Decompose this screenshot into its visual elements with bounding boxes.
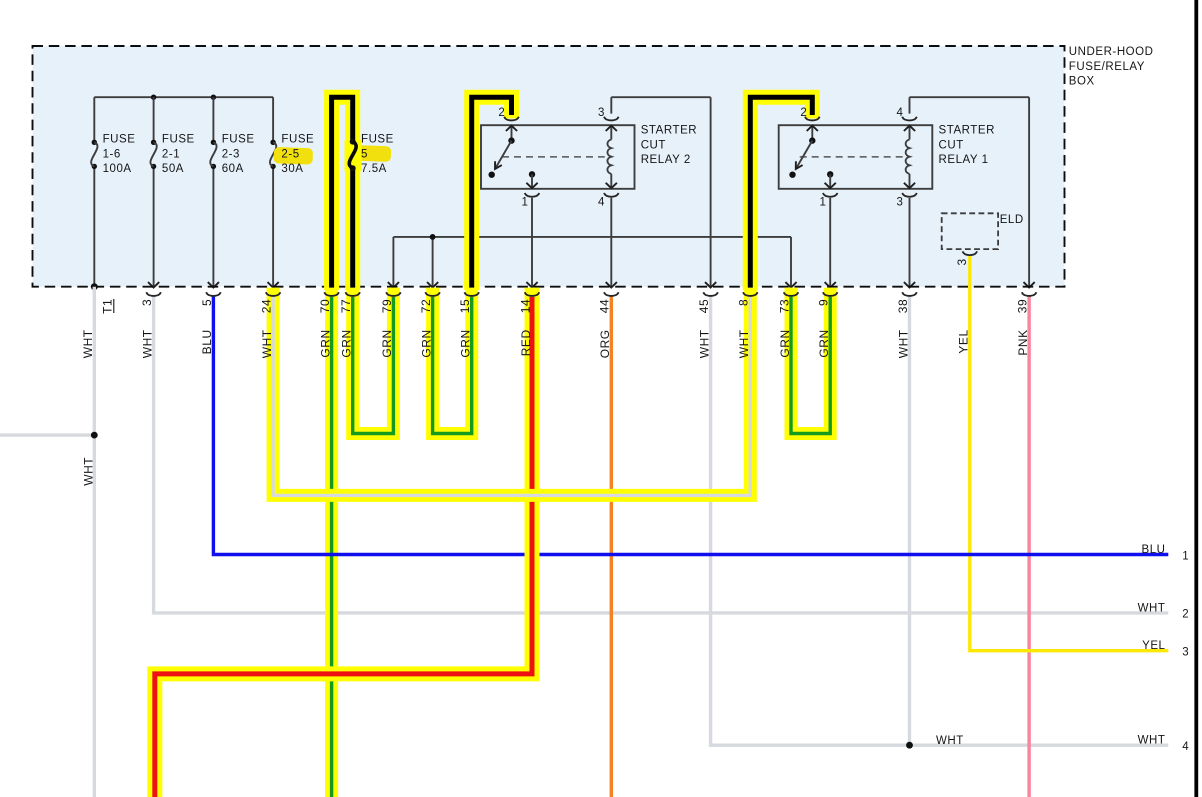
svg-text:30A: 30A	[281, 163, 303, 175]
svg-text:ORG: ORG	[598, 329, 612, 358]
svg-text:BLU: BLU	[200, 329, 214, 354]
svg-text:T1: T1	[101, 299, 115, 314]
svg-text:GRN: GRN	[340, 329, 354, 357]
svg-text:GRN: GRN	[459, 329, 473, 357]
svg-text:GRN: GRN	[778, 329, 792, 357]
svg-text:3: 3	[1182, 647, 1189, 659]
svg-text:2: 2	[498, 107, 505, 119]
svg-text:3: 3	[955, 258, 969, 265]
svg-text:FUSE: FUSE	[222, 134, 255, 146]
svg-text:3: 3	[598, 107, 605, 119]
svg-text:15: 15	[458, 299, 472, 313]
svg-text:79: 79	[380, 299, 394, 313]
svg-text:2: 2	[1182, 609, 1189, 621]
svg-text:WHT: WHT	[936, 735, 964, 747]
svg-text:7.5A: 7.5A	[361, 163, 387, 175]
svg-text:45: 45	[697, 299, 711, 313]
svg-text:60A: 60A	[222, 163, 244, 175]
svg-text:BOX: BOX	[1069, 76, 1095, 88]
svg-text:3: 3	[140, 299, 154, 306]
svg-text:24: 24	[260, 299, 274, 313]
svg-text:WHT: WHT	[81, 457, 95, 486]
svg-text:WHT: WHT	[140, 329, 154, 358]
svg-text:73: 73	[777, 299, 791, 313]
svg-text:YEL: YEL	[957, 329, 971, 353]
svg-text:4: 4	[598, 196, 605, 208]
svg-text:38: 38	[896, 299, 910, 313]
svg-text:70: 70	[318, 299, 332, 313]
svg-text:RELAY 1: RELAY 1	[939, 154, 989, 166]
svg-text:FUSE: FUSE	[162, 134, 195, 146]
svg-text:CUT: CUT	[939, 139, 964, 151]
svg-text:1-6: 1-6	[103, 148, 121, 160]
svg-text:1: 1	[522, 196, 529, 208]
svg-text:STARTER: STARTER	[939, 125, 995, 137]
svg-text:77: 77	[339, 299, 353, 313]
svg-text:BLU: BLU	[1141, 544, 1165, 556]
svg-text:ELD: ELD	[1000, 214, 1024, 226]
svg-text:2-5: 2-5	[281, 148, 299, 160]
svg-text:PNK: PNK	[1016, 329, 1030, 355]
svg-text:50A: 50A	[162, 163, 184, 175]
svg-text:WHT: WHT	[737, 329, 751, 358]
svg-text:WHT: WHT	[896, 329, 910, 358]
svg-text:CUT: CUT	[641, 139, 666, 151]
svg-text:UNDER-HOOD: UNDER-HOOD	[1069, 46, 1154, 58]
svg-text:WHT: WHT	[1138, 735, 1166, 747]
svg-text:WHT: WHT	[81, 329, 95, 358]
svg-text:RELAY 2: RELAY 2	[641, 154, 691, 166]
svg-text:1: 1	[1182, 550, 1189, 562]
svg-text:39: 39	[1016, 299, 1030, 313]
svg-text:3: 3	[897, 196, 904, 208]
svg-text:FUSE/RELAY: FUSE/RELAY	[1069, 61, 1145, 73]
svg-text:FUSE: FUSE	[103, 134, 136, 146]
svg-text:5: 5	[361, 148, 368, 160]
svg-text:STARTER: STARTER	[641, 125, 697, 137]
svg-text:2-3: 2-3	[222, 148, 240, 160]
svg-text:14: 14	[518, 299, 532, 313]
svg-text:9: 9	[817, 299, 831, 306]
svg-text:GRN: GRN	[380, 329, 394, 357]
svg-text:44: 44	[598, 299, 612, 313]
svg-text:WHT: WHT	[1138, 602, 1166, 614]
svg-text:2-1: 2-1	[162, 148, 180, 160]
svg-text:8: 8	[737, 299, 751, 306]
svg-text:YEL: YEL	[1142, 640, 1165, 652]
svg-text:5: 5	[200, 299, 214, 306]
svg-text:2: 2	[800, 107, 807, 119]
svg-text:100A: 100A	[103, 163, 132, 175]
svg-text:RED: RED	[519, 329, 533, 356]
svg-text:GRN: GRN	[817, 329, 831, 357]
svg-text:GRN: GRN	[419, 329, 433, 357]
svg-text:GRN: GRN	[318, 329, 332, 357]
svg-text:1: 1	[820, 196, 827, 208]
svg-text:4: 4	[1182, 741, 1189, 753]
svg-text:72: 72	[419, 299, 433, 313]
svg-text:WHT: WHT	[697, 329, 711, 358]
svg-text:4: 4	[897, 107, 904, 119]
svg-text:FUSE: FUSE	[281, 134, 314, 146]
svg-text:FUSE: FUSE	[361, 134, 394, 146]
svg-text:WHT: WHT	[260, 329, 274, 358]
